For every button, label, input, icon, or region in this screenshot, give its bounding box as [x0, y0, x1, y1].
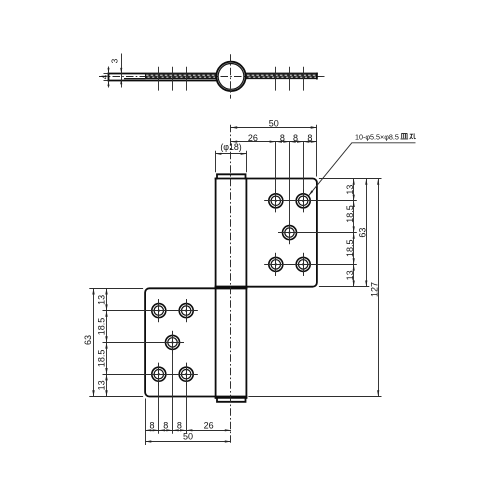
ext line upper col mid	[289, 142, 291, 245]
upper leaf hole top-left	[264, 200, 287, 202]
top view hole centerline L2	[172, 67, 174, 91]
upper leaf hole bottom-left	[264, 264, 287, 266]
svg-text:18.5: 18.5	[345, 239, 355, 257]
barrel bottom cap	[217, 398, 246, 402]
ext line lower leaf left edge bottom	[145, 399, 147, 446]
top view right end centerline stub	[320, 76, 325, 78]
dim 63 left line	[93, 288, 95, 396]
ext line lower col right	[186, 299, 188, 322]
ext row upper r1	[264, 200, 357, 202]
lower leaf hole bottom-right	[175, 374, 198, 376]
svg-text:8: 8	[293, 133, 298, 143]
top view top edge line right	[245, 73, 317, 75]
ext line lower col mid	[172, 331, 174, 434]
barrel right edge	[245, 179, 247, 398]
top view hole centerline U3	[303, 67, 305, 91]
svg-text:13: 13	[97, 295, 107, 305]
dim chain right 13-18.5-18.5-13 line	[353, 179, 355, 287]
svg-text:18.5: 18.5	[97, 350, 107, 368]
dim chain bottom 8-8-8-26 line	[145, 430, 231, 432]
ext line upper leaf right edge top	[316, 125, 318, 177]
svg-text:18.5: 18.5	[345, 205, 355, 223]
dim 127 line	[378, 179, 380, 397]
barrel top cap	[217, 174, 246, 178]
svg-text:26: 26	[248, 133, 258, 143]
top view hole centerline L1	[158, 67, 160, 91]
ext line upper leaf top right	[319, 178, 382, 180]
ext row lower r3	[103, 374, 198, 376]
upper leaf hole middle	[278, 232, 301, 234]
top view horizontal centerline	[99, 76, 324, 78]
ext line lower leaf top left	[89, 288, 143, 290]
svg-text:13: 13	[97, 380, 107, 390]
ext line upper leaf bottom right	[319, 286, 369, 288]
dim (phi18) line	[216, 153, 247, 155]
ext line lower leaf bottom right	[248, 396, 381, 398]
lower leaf hole middle	[161, 342, 184, 344]
ext line lower col left	[158, 299, 160, 322]
top view hole centerline U2	[289, 67, 291, 91]
top view plate bottom edge left segment	[124, 78, 146, 80]
top view lower leaf divider	[145, 74, 147, 79]
svg-text:10-φ5.5×φ8.5: 10-φ5.5×φ8.5	[355, 132, 399, 141]
barrel body bottom edge	[216, 397, 247, 399]
top view lower bottom edge (left part)	[109, 80, 217, 82]
top view hole centerline U1	[275, 67, 277, 91]
top view upper leaf hatched band	[246, 74, 316, 79]
svg-text:8: 8	[149, 421, 154, 431]
svg-text:13: 13	[345, 185, 355, 195]
svg-text:50: 50	[183, 432, 193, 442]
barrel left edge	[215, 179, 217, 398]
knuckle circle inner	[218, 64, 244, 90]
barrel split line lower	[216, 287, 247, 289]
kanji ana (hole)	[410, 133, 416, 139]
dim 4 extension lines	[104, 73, 109, 75]
svg-text:50: 50	[269, 119, 279, 129]
svg-text:26: 26	[204, 421, 214, 431]
lower leaf outline	[145, 288, 246, 396]
lower leaf hole bottom-left	[147, 374, 170, 376]
upper leaf outline	[216, 179, 317, 287]
dim 50 top line	[231, 127, 317, 129]
leader line 10-phi5.5 x phi8.5 countersunk	[309, 143, 416, 196]
svg-text:18.5: 18.5	[97, 318, 107, 336]
svg-text:63: 63	[83, 335, 93, 345]
svg-text:3: 3	[110, 58, 120, 63]
top view top edge line left	[109, 73, 217, 75]
svg-text:8: 8	[177, 421, 182, 431]
svg-text:13: 13	[345, 270, 355, 280]
ext row lower mid	[103, 342, 185, 344]
lower leaf hole top-right	[175, 310, 198, 312]
ext line upper col left	[275, 142, 277, 213]
top view right end cap	[316, 74, 318, 79]
top view lower leaf hatched band	[146, 74, 216, 79]
upper leaf hole bottom-right	[292, 264, 315, 266]
lower leaf hole top-left	[147, 310, 170, 312]
dim 50 bottom line	[145, 441, 231, 443]
top view hole centerline L3	[186, 67, 188, 91]
svg-text:4: 4	[100, 74, 110, 79]
svg-text:8: 8	[307, 133, 312, 143]
barrel split line upper	[216, 286, 247, 288]
top view left end cap	[108, 74, 110, 81]
barrel centerline	[230, 125, 232, 445]
svg-text:(φ18): (φ18)	[220, 142, 241, 152]
dim 3 line and arrows	[121, 54, 123, 88]
ext row lower r1	[103, 310, 198, 312]
dim chain 26-8-8-8 line	[231, 141, 317, 143]
ext row upper r3	[264, 264, 357, 266]
ext line upper col right	[303, 142, 305, 213]
svg-text:8: 8	[280, 133, 285, 143]
top view upper leaf band bottom edge	[245, 78, 317, 80]
dim 4 line and arrows	[108, 67, 110, 74]
svg-text:8: 8	[163, 421, 168, 431]
svg-text:63: 63	[358, 228, 368, 238]
knuckle circle outer	[216, 62, 245, 91]
upper leaf hole top-right	[292, 200, 315, 202]
ext line lower leaf bottom left	[89, 396, 143, 398]
dim chain left 13-18.5-18.5-13 line	[106, 288, 108, 396]
svg-text:127: 127	[369, 282, 379, 297]
ext row upper mid	[278, 232, 357, 234]
kanji sara (dish)	[401, 134, 409, 139]
top view lower leaf band bottom edge	[146, 78, 217, 80]
knuckle vertical centerline	[230, 54, 232, 98]
dim (phi18) ext lines	[215, 151, 217, 173]
dim 63 right line	[366, 179, 368, 287]
